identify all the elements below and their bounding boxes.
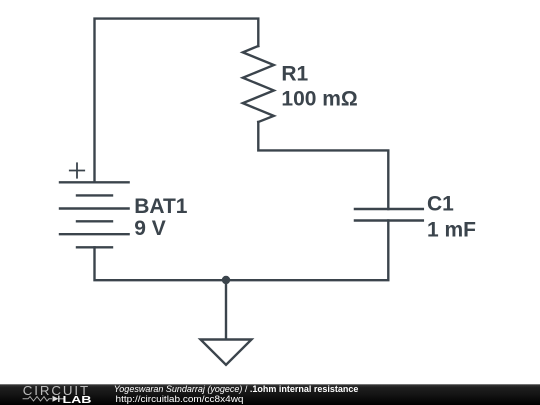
svg-text:LAB: LAB (63, 395, 92, 405)
svg-text:http://circuitlab.com/cc8x4wq: http://circuitlab.com/cc8x4wq (116, 394, 244, 404)
svg-text:1 mF: 1 mF (427, 218, 476, 241)
wire (95, 221, 389, 281)
svg-text:100 mΩ: 100 mΩ (281, 88, 357, 111)
wire (225, 280, 227, 339)
capacitor C1 (355, 209, 423, 221)
wire (258, 122, 388, 209)
svg-text:R1: R1 (281, 62, 308, 85)
ground (201, 340, 252, 365)
svg-text:BAT1: BAT1 (134, 195, 188, 218)
svg-text:C1: C1 (427, 192, 454, 215)
battery BAT1 (60, 182, 129, 247)
svg-text:9 V: 9 V (134, 217, 166, 240)
plus sign (70, 163, 84, 177)
logo resistor squiggle (23, 397, 52, 401)
svg-text:Yogeswaran Sundarraj (yogece): Yogeswaran Sundarraj (yogece) / .1ohm in… (114, 384, 359, 394)
wire (95, 19, 259, 182)
logo diode (53, 396, 65, 402)
resistor R1 (243, 46, 274, 122)
node junction (222, 276, 230, 284)
